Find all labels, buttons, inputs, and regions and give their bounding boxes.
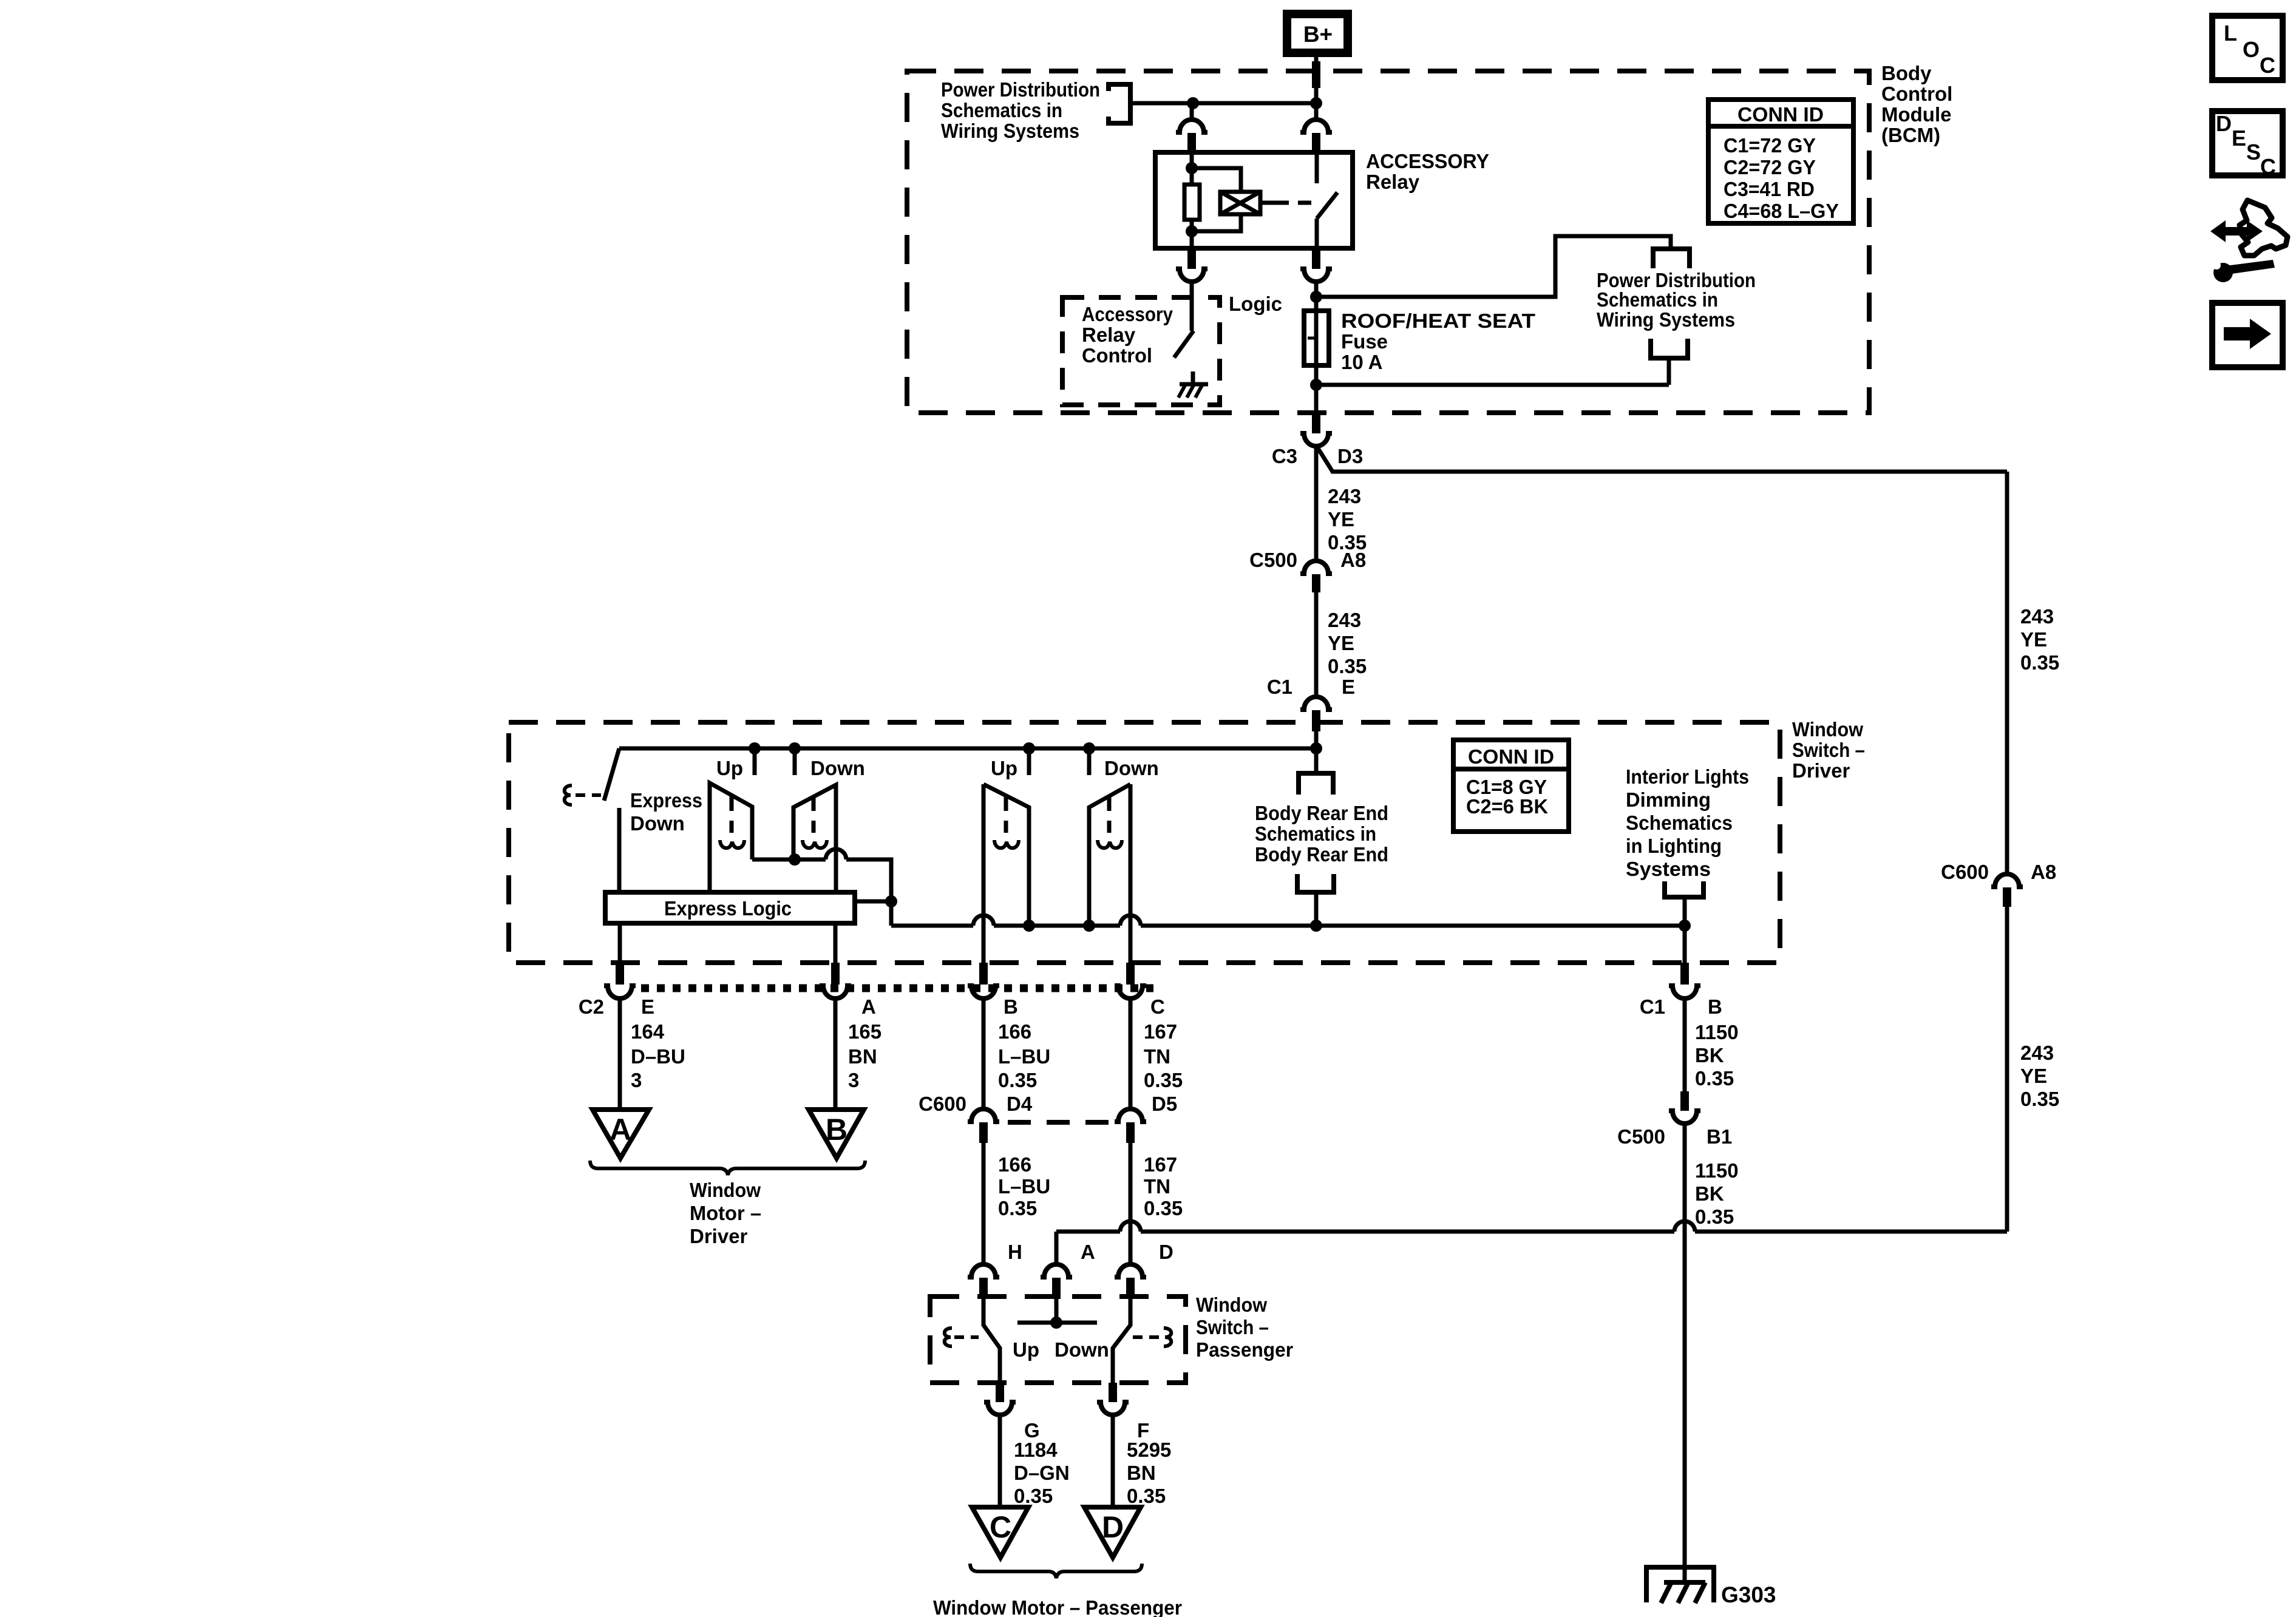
svg-text:Logic: Logic	[1229, 293, 1282, 315]
svg-text:Interior Lights: Interior Lights	[1626, 765, 1749, 788]
svg-text:D: D	[1102, 1510, 1124, 1544]
svg-text:BN: BN	[848, 1045, 877, 1068]
svg-text:D–GN: D–GN	[1014, 1462, 1070, 1484]
svg-text:B: B	[826, 1113, 847, 1147]
svg-text:165: 165	[848, 1020, 881, 1043]
svg-text:Relay: Relay	[1082, 324, 1136, 346]
svg-text:D: D	[2216, 111, 2232, 136]
svg-text:0.35: 0.35	[1695, 1205, 1734, 1228]
svg-text:243: 243	[1328, 609, 1361, 631]
svg-text:C1=72 GY: C1=72 GY	[1724, 134, 1816, 157]
svg-text:E: E	[1342, 676, 1355, 698]
svg-text:C: C	[1150, 995, 1165, 1018]
svg-text:YE: YE	[1328, 508, 1354, 531]
svg-text:Driver: Driver	[690, 1225, 748, 1247]
svg-text:5295: 5295	[1127, 1439, 1171, 1461]
svg-text:243: 243	[1328, 485, 1361, 507]
svg-text:Power Distribution: Power Distribution	[941, 78, 1100, 101]
svg-text:Wiring Systems: Wiring Systems	[1597, 308, 1735, 331]
svg-text:Dimming: Dimming	[1626, 788, 1711, 811]
svg-text:Control: Control	[1082, 344, 1152, 367]
svg-text:D: D	[1159, 1241, 1173, 1263]
svg-text:Window: Window	[1196, 1293, 1267, 1316]
svg-text:Relay: Relay	[1366, 171, 1420, 193]
svg-text:C600: C600	[1941, 861, 1989, 883]
svg-text:D–BU: D–BU	[631, 1045, 685, 1068]
svg-text:164: 164	[631, 1020, 665, 1043]
svg-text:Accessory: Accessory	[1082, 303, 1173, 325]
svg-text:243: 243	[2020, 605, 2054, 628]
svg-text:H: H	[1008, 1241, 1022, 1263]
svg-text:Driver: Driver	[1792, 759, 1850, 782]
svg-text:C3: C3	[1272, 445, 1297, 467]
svg-text:0.35: 0.35	[1127, 1485, 1166, 1507]
svg-text:1150: 1150	[1695, 1021, 1739, 1043]
svg-text:B: B	[1004, 995, 1018, 1018]
svg-text:0.35: 0.35	[2020, 651, 2059, 674]
svg-text:Schematics in: Schematics in	[1597, 288, 1718, 311]
svg-text:BN: BN	[1127, 1462, 1156, 1484]
svg-text:Express: Express	[630, 789, 702, 812]
svg-text:G303: G303	[1721, 1582, 1776, 1607]
svg-text:0.35: 0.35	[1144, 1197, 1183, 1219]
svg-text:in Lighting: in Lighting	[1626, 835, 1722, 857]
svg-text:TN: TN	[1144, 1175, 1170, 1198]
svg-text:A: A	[610, 1113, 631, 1147]
svg-text:166: 166	[998, 1153, 1031, 1176]
svg-text:E: E	[641, 995, 654, 1018]
svg-text:1184: 1184	[1014, 1439, 1058, 1461]
svg-text:B+: B+	[1303, 22, 1333, 47]
svg-text:CONN ID: CONN ID	[1468, 745, 1554, 768]
svg-text:C2=72 GY: C2=72 GY	[1724, 156, 1816, 178]
svg-text:0.35: 0.35	[998, 1197, 1037, 1219]
svg-text:Motor –: Motor –	[690, 1202, 761, 1224]
svg-text:Express Logic: Express Logic	[664, 897, 792, 920]
svg-text:Module: Module	[1881, 103, 1951, 126]
svg-text:0.35: 0.35	[1695, 1067, 1734, 1090]
svg-text:Switch –: Switch –	[1792, 739, 1865, 761]
svg-text:C4=68 L–GY: C4=68 L–GY	[1724, 200, 1839, 222]
svg-text:0.35: 0.35	[1014, 1485, 1053, 1507]
svg-text:A8: A8	[2031, 861, 2056, 883]
svg-text:Up: Up	[716, 757, 743, 779]
svg-text:Window Motor – Passenger: Window Motor – Passenger	[933, 1596, 1182, 1617]
svg-text:TN: TN	[1144, 1045, 1170, 1068]
svg-text:C3=41 RD: C3=41 RD	[1724, 178, 1815, 200]
svg-text:YE: YE	[1328, 632, 1354, 654]
svg-text:C: C	[2260, 53, 2275, 78]
svg-text:YE: YE	[2020, 628, 2047, 651]
svg-text:0.35: 0.35	[1144, 1069, 1183, 1091]
svg-text:L–BU: L–BU	[998, 1175, 1050, 1198]
svg-text:C2=6 BK: C2=6 BK	[1466, 795, 1548, 818]
svg-text:Down: Down	[1055, 1338, 1109, 1361]
svg-text:3: 3	[631, 1069, 642, 1091]
svg-text:CONN ID: CONN ID	[1737, 103, 1824, 126]
svg-text:Down: Down	[630, 812, 685, 835]
svg-text:Body Rear End: Body Rear End	[1255, 843, 1388, 866]
svg-text:ROOF/HEAT SEAT: ROOF/HEAT SEAT	[1341, 310, 1535, 332]
svg-text:C: C	[990, 1510, 1011, 1544]
svg-text:1150: 1150	[1695, 1159, 1739, 1182]
svg-text:166: 166	[998, 1020, 1031, 1043]
svg-text:Down: Down	[1104, 757, 1159, 779]
svg-text:Systems: Systems	[1626, 858, 1711, 880]
svg-text:C600: C600	[919, 1093, 966, 1115]
svg-text:Down: Down	[810, 757, 865, 779]
svg-text:O: O	[2243, 37, 2260, 62]
svg-text:Up: Up	[1013, 1338, 1039, 1361]
svg-text:C1: C1	[1640, 995, 1665, 1018]
svg-text:Window: Window	[690, 1179, 761, 1201]
svg-text:Schematics in: Schematics in	[1255, 822, 1376, 845]
svg-text:Up: Up	[991, 757, 1017, 779]
svg-text:167: 167	[1144, 1020, 1177, 1043]
svg-text:C500: C500	[1617, 1125, 1665, 1148]
svg-text:243: 243	[2020, 1042, 2054, 1064]
svg-text:YE: YE	[2020, 1065, 2047, 1087]
svg-text:Switch –: Switch –	[1196, 1316, 1269, 1338]
svg-text:0.35: 0.35	[2020, 1088, 2059, 1110]
svg-text:L: L	[2224, 21, 2237, 46]
svg-text:C500: C500	[1249, 549, 1297, 571]
svg-text:A8: A8	[1340, 549, 1366, 571]
svg-text:BK: BK	[1695, 1044, 1724, 1066]
svg-text:A: A	[861, 995, 876, 1018]
svg-text:Passenger: Passenger	[1196, 1338, 1293, 1361]
svg-text:S: S	[2246, 140, 2261, 164]
svg-text:E: E	[2232, 126, 2246, 151]
svg-text:Body: Body	[1881, 62, 1932, 84]
svg-text:A: A	[1081, 1241, 1095, 1263]
svg-text:Schematics in: Schematics in	[941, 99, 1062, 121]
svg-text:BK: BK	[1695, 1182, 1724, 1205]
svg-text:3: 3	[848, 1069, 859, 1091]
svg-text:ACCESSORY: ACCESSORY	[1366, 150, 1489, 172]
svg-text:Window: Window	[1792, 718, 1863, 741]
svg-text:Fuse: Fuse	[1341, 330, 1388, 353]
svg-text:L–BU: L–BU	[998, 1045, 1050, 1068]
svg-text:Wiring Systems: Wiring Systems	[941, 120, 1079, 142]
svg-text:B: B	[1708, 995, 1722, 1018]
svg-text:0.35: 0.35	[998, 1069, 1037, 1091]
svg-text:D4: D4	[1007, 1093, 1033, 1115]
svg-text:10 A: 10 A	[1341, 351, 1382, 373]
svg-text:Body Rear End: Body Rear End	[1255, 802, 1388, 824]
svg-text:C2: C2	[579, 995, 604, 1018]
svg-text:0.35: 0.35	[1328, 655, 1367, 677]
svg-text:D5: D5	[1152, 1093, 1177, 1115]
svg-text:B1: B1	[1707, 1125, 1732, 1148]
svg-text:D3: D3	[1337, 445, 1363, 467]
svg-text:C: C	[2260, 154, 2276, 179]
svg-text:C1: C1	[1267, 676, 1292, 698]
svg-text:Control: Control	[1881, 83, 1952, 105]
svg-text:(BCM): (BCM)	[1881, 124, 1940, 146]
svg-text:Schematics: Schematics	[1626, 812, 1733, 834]
svg-text:167: 167	[1144, 1153, 1177, 1176]
